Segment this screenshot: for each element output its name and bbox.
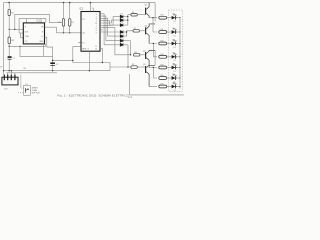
svg-text:R7: R7 bbox=[134, 28, 136, 30]
resistor R10 bbox=[159, 15, 172, 19]
resistor R16 bbox=[159, 84, 172, 88]
svg-text:D.L: D.L bbox=[174, 90, 177, 92]
wire IC2 reset pin stub bbox=[78, 42, 81, 44]
transistor Q4 bbox=[143, 50, 155, 67]
resistor R13 bbox=[159, 54, 172, 58]
svg-text:Q5: Q5 bbox=[143, 64, 146, 66]
wire CV routing corner bbox=[20, 44, 53, 57]
svg-text:R6: R6 bbox=[132, 12, 134, 14]
wire IC1 gnd stub below bbox=[9, 44, 45, 47]
svg-text:LD4: LD4 bbox=[172, 53, 175, 55]
wire IC2 vcc pin14 bbox=[89, 3, 91, 12]
svg-text:LD2: LD2 bbox=[172, 28, 175, 30]
svg-text:12: 12 bbox=[95, 49, 97, 51]
svg-text:R14: R14 bbox=[160, 65, 163, 67]
wire IC2 output fan bbox=[73, 14, 131, 67]
wire LED cathode bus bbox=[179, 18, 181, 89]
svg-text:LD3: LD3 bbox=[172, 39, 175, 41]
svg-text:C1: C1 bbox=[12, 58, 14, 60]
resistor R3 bbox=[8, 29, 15, 46]
wire +9V top rail bbox=[4, 2, 156, 4]
svg-text:LD5: LD5 bbox=[172, 63, 175, 65]
svg-text:D3: D3 bbox=[121, 22, 123, 24]
wire IC1 top pin stubs bbox=[27, 19, 42, 23]
node junction dots on top rail bbox=[8, 2, 91, 4]
wire routing loop A (DIS) bbox=[15, 14, 63, 29]
svg-text:D6: D6 bbox=[121, 38, 123, 40]
svg-text:R10: R10 bbox=[160, 15, 163, 17]
wire IC1 output pin3 to clock bbox=[45, 27, 81, 33]
svg-text:LD7: LD7 bbox=[172, 82, 175, 84]
diode D7 bbox=[120, 43, 128, 67]
op IC1 555 timer box bbox=[23, 20, 44, 44]
svg-text:R9: R9 bbox=[132, 64, 134, 66]
diode D4 bbox=[120, 31, 126, 34]
diode D2 bbox=[120, 19, 128, 22]
wire IC2 gnd pin8 bbox=[88, 51, 90, 70]
LED LD4 bbox=[172, 53, 181, 63]
svg-text:LD1: LD1 bbox=[172, 14, 175, 16]
resistor R7 bbox=[133, 28, 145, 32]
connector CN1 bbox=[2, 70, 18, 90]
LED LD2 bbox=[172, 28, 181, 38]
wire diode cathode bus group A bbox=[128, 15, 131, 25]
svg-text:8: 8 bbox=[88, 49, 89, 51]
resistor R12 bbox=[159, 41, 172, 45]
resistor R2 vertical bbox=[58, 3, 64, 33]
svg-text:R16: R16 bbox=[160, 84, 163, 86]
capacitor C1 electrolytic bbox=[8, 44, 15, 71]
diode D1 bbox=[120, 13, 128, 18]
wire +V bus right lower bbox=[154, 51, 156, 66]
svg-text:13: 13 bbox=[82, 19, 84, 21]
diode D5 bbox=[120, 35, 126, 38]
svg-text:IC1: IC1 bbox=[36, 20, 40, 23]
resistor R1 bbox=[8, 3, 15, 30]
svg-text:9: 9 bbox=[96, 32, 97, 34]
diode D6 bbox=[120, 38, 130, 43]
svg-text:IC2: IC2 bbox=[79, 8, 83, 11]
wire LED row 3-4 feed bbox=[149, 44, 157, 57]
svg-text:C4: C4 bbox=[71, 22, 73, 24]
LED LD1 bbox=[172, 14, 181, 24]
svg-text:R8: R8 bbox=[135, 52, 137, 54]
svg-text:C2: C2 bbox=[56, 64, 58, 66]
LED LD5 bbox=[172, 63, 181, 73]
svg-text:D.L: D.L bbox=[174, 71, 177, 73]
dashed display box bbox=[169, 10, 183, 91]
svg-text:Fig. 1 - ELETTRONIC DICE: SCHE: Fig. 1 - ELETTRONIC DICE: SCHEMA ELETTRI… bbox=[58, 94, 130, 98]
svg-text:Q4: Q4 bbox=[143, 50, 146, 52]
transistor Q2 bbox=[145, 3, 150, 18]
wire diode cathode bus group B bbox=[127, 31, 133, 36]
wire LED row 7 feed bbox=[149, 86, 157, 88]
LED LD3 bbox=[172, 39, 181, 49]
svg-text:THR: THR bbox=[25, 36, 30, 38]
svg-text:D1: D1 bbox=[121, 13, 123, 15]
svg-text:R13: R13 bbox=[160, 54, 163, 56]
op IC2 4017 counter box bbox=[79, 8, 100, 52]
svg-text:GND: GND bbox=[39, 41, 44, 43]
svg-text:Q2: Q2 bbox=[145, 4, 148, 6]
node dots R2/C4 bottoms on clock wire bbox=[63, 32, 64, 33]
svg-text:BUTTON: BUTTON bbox=[32, 93, 40, 95]
svg-text:4-178: 4-178 bbox=[128, 97, 132, 99]
svg-text:R2: R2 bbox=[58, 22, 60, 24]
wire second rail bbox=[7, 72, 58, 74]
svg-text:R11: R11 bbox=[160, 29, 163, 31]
wire IC1 pin2 row bbox=[9, 28, 23, 30]
resistor R15 bbox=[159, 75, 172, 79]
svg-text:START: START bbox=[32, 86, 39, 89]
svg-text:R15: R15 bbox=[160, 75, 163, 77]
wire diode D6 to row R8 bbox=[130, 41, 132, 55]
resistor R6 bbox=[131, 12, 145, 16]
switch S1 push button bbox=[18, 75, 40, 96]
svg-text:R12: R12 bbox=[160, 41, 163, 43]
LED LD6 bbox=[172, 74, 181, 84]
svg-text:S1: S1 bbox=[25, 84, 27, 86]
transistor Q3 bbox=[145, 24, 156, 44]
resistor R11 bbox=[159, 29, 172, 33]
wire routing loop B (VCC/RESET) bbox=[19, 19, 46, 33]
svg-text:LD6: LD6 bbox=[172, 74, 175, 76]
transistor Q5 bbox=[143, 64, 155, 87]
resistor R9 bbox=[131, 64, 145, 68]
wire IC1 lower pin routing to IC2 left pins bbox=[45, 37, 53, 70]
wire 0V rail bbox=[4, 67, 110, 71]
wire IC1 left pin stub bbox=[21, 33, 24, 38]
svg-text:15: 15 bbox=[82, 42, 84, 44]
LED LD7 bbox=[172, 82, 181, 92]
diode D3 bbox=[120, 22, 128, 27]
wire LED row 5-6 feed bbox=[149, 68, 157, 79]
svg-text:D.L: D.L bbox=[174, 35, 177, 37]
svg-text:D.L: D.L bbox=[174, 21, 177, 23]
svg-text:Q3: Q3 bbox=[145, 26, 148, 28]
capacitor C2 electrolytic bbox=[50, 62, 58, 66]
frame bottom right bbox=[130, 74, 184, 95]
wire LED row 1-2 feed bbox=[149, 18, 157, 32]
wire +V bus right top bbox=[154, 3, 156, 22]
resistor R14 bbox=[159, 65, 172, 69]
svg-text:D.L: D.L bbox=[174, 60, 177, 62]
capacitor C4 vertical bbox=[69, 3, 74, 33]
wire left supply vertical bbox=[3, 3, 5, 75]
node dot routing A bbox=[14, 29, 15, 30]
svg-text:D.L: D.L bbox=[174, 47, 177, 49]
node dot R1/pin wire bbox=[9, 29, 10, 30]
resistor R8 bbox=[134, 52, 146, 56]
